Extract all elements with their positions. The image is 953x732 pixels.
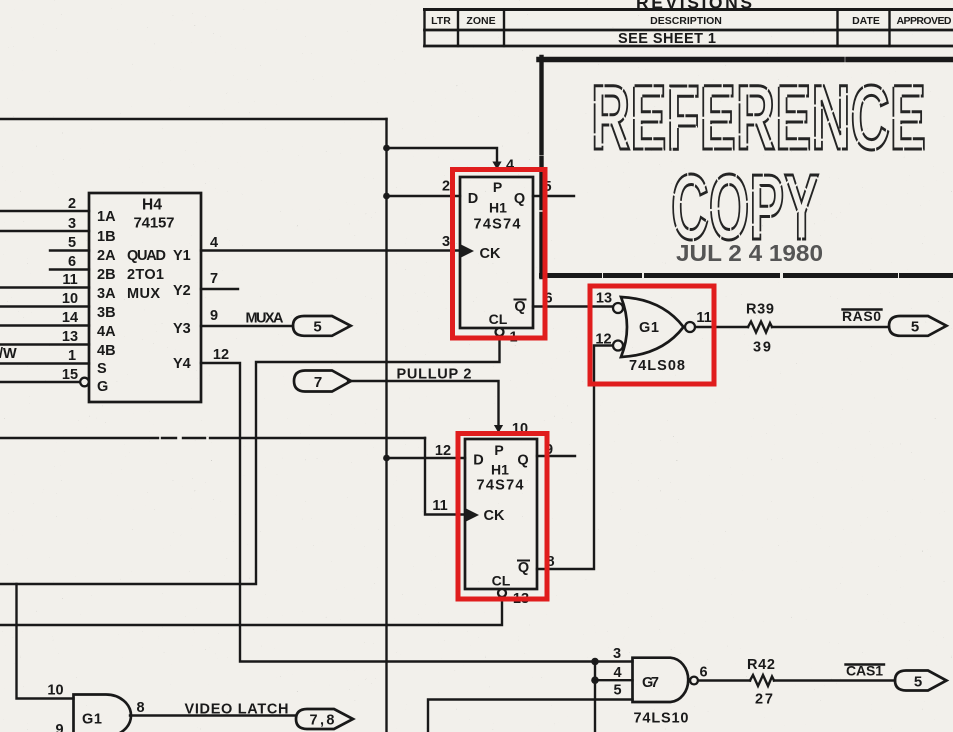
- svg-text:27: 27: [755, 692, 773, 708]
- svg-text:H1: H1: [489, 200, 507, 216]
- svg-text:Q: Q: [518, 560, 529, 576]
- wire top bus from left edge: [0, 118, 387, 120]
- resistor R39: [748, 322, 772, 333]
- svg-text:11: 11: [62, 272, 77, 288]
- svg-text:10: 10: [62, 291, 78, 307]
- wire left horizontal to FF2 CK: [0, 437, 425, 439]
- svg-text:CK: CK: [484, 508, 505, 524]
- svg-text:4: 4: [613, 665, 621, 681]
- wire G1 output to R39: [695, 326, 748, 328]
- wire FF1 preset pin 4: [387, 148, 498, 164]
- svg-text:Y2: Y2: [173, 283, 191, 299]
- revisions table line under title: [425, 8, 953, 11]
- svg-text:/W: /W: [0, 346, 17, 362]
- svg-text:DATE: DATE: [852, 15, 880, 27]
- wire FF2 CK pin 11: [425, 438, 465, 515]
- revisions table bottom line: [425, 45, 953, 48]
- svg-text:ZONE: ZONE: [466, 15, 495, 27]
- svg-text:Q: Q: [514, 191, 525, 207]
- svg-text:SEE SHEET 1: SEE SHEET 1: [618, 31, 716, 47]
- svg-text:CK: CK: [480, 246, 501, 262]
- svg-text:2: 2: [68, 196, 76, 212]
- FF1 Qbar overline: [515, 299, 526, 301]
- arrowhead FF2 preset pin 10: [494, 425, 503, 433]
- wire FF1 Q pin 5 stub: [533, 195, 574, 197]
- stamp box left border: [539, 57, 543, 277]
- svg-text:12: 12: [213, 347, 229, 363]
- svg-text:5: 5: [914, 674, 922, 691]
- wire FF2 CL pin 13 net: [0, 599, 502, 625]
- svg-text:2TO1: 2TO1: [127, 267, 164, 283]
- svg-text:12: 12: [435, 443, 451, 459]
- svg-text:Q: Q: [517, 453, 528, 469]
- svg-text:74LS08: 74LS08: [629, 358, 685, 374]
- and-gate G1 74LS08 body: [621, 297, 684, 357]
- wire input 4A pin 14: [0, 324, 89, 326]
- wire G1 video latch pin 10: [17, 584, 74, 699]
- svg-text:G1: G1: [82, 712, 102, 728]
- svg-text:H1: H1: [491, 462, 509, 478]
- wire main vertical bus: [385, 119, 387, 732]
- wire input 2A pin 5: [50, 249, 89, 251]
- wire input 1B pin 3: [0, 230, 89, 232]
- wire G1 video latch output pin 8: [130, 714, 296, 716]
- svg-text:P: P: [494, 442, 503, 458]
- wire Y4 pin 12 to G7 pin 3: [201, 363, 633, 662]
- revisions table ZONE separator: [503, 10, 505, 47]
- clock triangle FF1 pin 3: [460, 244, 474, 258]
- svg-text:MUXA: MUXA: [246, 311, 285, 327]
- wire input 3A pin 11: [0, 286, 89, 288]
- wire input 2B pin 6: [50, 268, 89, 270]
- svg-text:P: P: [493, 179, 502, 195]
- svg-text:JUL 2 4 1980: JUL 2 4 1980: [676, 240, 823, 266]
- svg-text:2B: 2B: [97, 267, 116, 283]
- svg-text:14: 14: [62, 310, 78, 326]
- junction dot FF1 D net: [383, 193, 390, 200]
- wire FF2 D pin 12: [387, 457, 466, 459]
- svg-text:CL: CL: [489, 311, 508, 327]
- svg-text:G1: G1: [639, 320, 659, 336]
- highlight box FF1: [453, 170, 546, 339]
- stamp box bottom border: [542, 273, 953, 278]
- svg-text:5: 5: [313, 319, 321, 336]
- flag connector 7,8 VIDEO LATCH: [296, 709, 353, 729]
- svg-text:1A: 1A: [97, 209, 116, 225]
- svg-text:DESCRIPTION: DESCRIPTION: [650, 15, 722, 27]
- wire Y1 to FF1 CK pin 3: [201, 249, 460, 251]
- svg-text:9: 9: [210, 308, 218, 324]
- svg-text:Y3: Y3: [173, 321, 191, 337]
- bubble FF2 CL pin 13: [498, 589, 506, 597]
- junction dot G7 pin 4: [591, 676, 599, 684]
- svg-text:13: 13: [596, 291, 612, 307]
- stamp box top border: [539, 57, 953, 63]
- svg-text:15: 15: [62, 367, 78, 383]
- wire G7 pin 4 stub: [595, 679, 633, 681]
- svg-text:D: D: [473, 453, 483, 469]
- bubble G1 input pin 12: [613, 341, 623, 351]
- svg-text:LTR: LTR: [431, 15, 451, 27]
- svg-text:PULLUP 2: PULLUP 2: [397, 367, 472, 383]
- svg-text:6: 6: [68, 254, 76, 270]
- nand-gate G7 74LS10 body: [633, 658, 689, 702]
- and-gate G1 video latch body: [74, 695, 132, 732]
- revisions table LTR separator: [457, 10, 459, 47]
- svg-text:3A: 3A: [97, 286, 116, 302]
- junction dot G7 pin 3: [591, 658, 599, 666]
- highlight box FF2: [458, 434, 547, 600]
- svg-text:8: 8: [136, 700, 144, 716]
- wire input S pin 1: [0, 362, 89, 364]
- svg-text:10: 10: [47, 683, 63, 699]
- svg-text:R42: R42: [747, 657, 775, 673]
- svg-text:Y1: Y1: [173, 248, 191, 264]
- svg-text:VIDEO LATCH: VIDEO LATCH: [185, 702, 289, 718]
- flip-flop H1 74S74 upper body: [460, 177, 533, 328]
- svg-text:11: 11: [432, 498, 447, 514]
- highlight box G1: [590, 286, 714, 384]
- svg-text:5: 5: [613, 683, 621, 699]
- svg-text:39: 39: [753, 340, 771, 356]
- junction dot preset net: [383, 145, 390, 152]
- svg-text:4A: 4A: [97, 324, 116, 340]
- svg-text:74S74: 74S74: [477, 478, 524, 494]
- svg-text:Q: Q: [514, 299, 525, 315]
- svg-text:3: 3: [68, 216, 76, 232]
- bubble FF1 CL pin 1: [496, 328, 504, 336]
- svg-text:R39: R39: [746, 302, 774, 318]
- svg-text:13: 13: [62, 329, 78, 345]
- wire Y3 pin 9 MUXA: [201, 325, 293, 327]
- flag connector 5 CAS1: [895, 671, 947, 691]
- bubble G1 output pin 11: [685, 322, 695, 332]
- svg-text:S: S: [97, 361, 107, 377]
- flag connector 7 PULLUP: [294, 371, 351, 392]
- CAS1 overline: [846, 663, 885, 665]
- arrowhead FF1 preset: [492, 162, 501, 170]
- svg-text:APPROVED: APPROVED: [897, 15, 952, 27]
- wire G7 pin 5: [428, 700, 633, 732]
- mux H4 74157 body: [89, 193, 201, 402]
- svg-text:12: 12: [595, 332, 611, 348]
- svg-text:3: 3: [613, 646, 621, 662]
- wire input 3B pin 10: [0, 305, 89, 307]
- wire input 4B pin 13: [0, 343, 89, 345]
- svg-text:4B: 4B: [97, 343, 116, 359]
- svg-text:74157: 74157: [134, 215, 175, 232]
- svg-text:1B: 1B: [97, 229, 116, 245]
- wire input G pin 15: [0, 381, 81, 383]
- bubble G7 output pin 6: [690, 677, 698, 685]
- svg-text:7: 7: [314, 374, 322, 391]
- svg-text:REFERENCE: REFERENCE: [591, 67, 926, 169]
- wire PULLUP 2 net: [348, 381, 499, 426]
- svg-text:74S74: 74S74: [474, 217, 521, 233]
- bubble G1 input pin 13: [613, 303, 623, 313]
- wire R42 to CAS1 flag: [774, 679, 895, 681]
- svg-text:G: G: [97, 379, 108, 395]
- svg-text:3B: 3B: [97, 305, 116, 321]
- svg-text:2: 2: [442, 179, 450, 195]
- svg-text:G7: G7: [642, 675, 659, 691]
- RAS0 overline: [843, 308, 882, 310]
- revisions table left border: [423, 10, 425, 47]
- wire G7 pins 3-4 vertical: [594, 662, 596, 732]
- svg-text:QUAD: QUAD: [127, 248, 166, 264]
- revisions table APPROVED separator: [888, 10, 890, 47]
- junction dot FF2 D net: [383, 455, 390, 462]
- svg-text:6: 6: [699, 665, 707, 681]
- flag connector 5 RAS0: [889, 316, 947, 336]
- wire Y2 pin 7 stub: [201, 288, 238, 290]
- wire R39 to RAS0 flag: [772, 326, 889, 328]
- wire FF1 CL pin 1 net: [0, 336, 500, 584]
- svg-text:5: 5: [911, 319, 919, 336]
- FF2 Qbar overline: [518, 560, 529, 562]
- svg-text:7: 7: [210, 271, 218, 287]
- clock triangle FF2 pin 11: [465, 508, 479, 522]
- svg-text:D: D: [468, 191, 478, 207]
- svg-text:5: 5: [68, 235, 76, 251]
- svg-text:Y4: Y4: [173, 356, 191, 372]
- wire FF2 Q pin 9 stub: [537, 455, 575, 457]
- wire G7 output to R42: [698, 679, 750, 681]
- wire FF1 D pin 2: [387, 195, 461, 197]
- svg-text:MUX: MUX: [127, 286, 160, 302]
- svg-text:4: 4: [210, 235, 218, 251]
- svg-text:2A: 2A: [97, 248, 116, 264]
- flag connector 5 MUXA: [293, 316, 351, 336]
- svg-text:3: 3: [442, 234, 450, 250]
- revisions table line under header: [425, 29, 953, 32]
- resistor R42: [750, 675, 774, 686]
- svg-text:1: 1: [68, 348, 76, 364]
- wire FF1 Qbar pin 6 to G1 pin 13: [533, 305, 613, 307]
- flip-flop H1 74S74 lower body: [465, 439, 537, 589]
- svg-text:CL: CL: [492, 573, 511, 589]
- wire input 1A pin 2: [0, 210, 89, 212]
- bubble H4 G pin 15: [80, 378, 89, 387]
- svg-text:9: 9: [55, 722, 63, 732]
- svg-text:11: 11: [696, 310, 711, 326]
- revisions table DATE separator: [836, 10, 838, 47]
- wire FF2 Qbar pin 8 to G1 pin 12: [537, 346, 613, 570]
- svg-text:7,8: 7,8: [310, 713, 335, 729]
- svg-text:H4: H4: [142, 197, 162, 214]
- svg-text:74LS10: 74LS10: [634, 711, 689, 727]
